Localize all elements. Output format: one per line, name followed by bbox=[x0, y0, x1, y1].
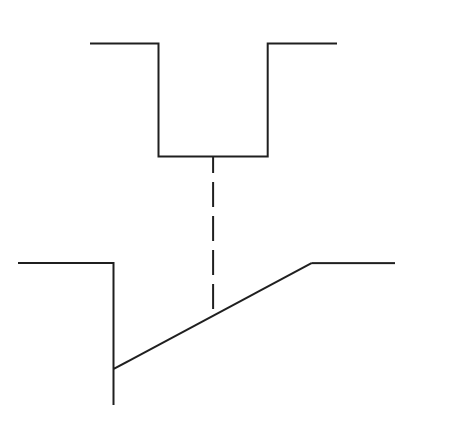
die slanted face bbox=[114, 263, 312, 369]
punch (upper tool) outline bbox=[90, 44, 337, 157]
die (lower tool) left shoulder bbox=[18, 263, 114, 405]
dashed centerline bbox=[212, 157, 214, 310]
die right shoulder bbox=[312, 262, 396, 264]
